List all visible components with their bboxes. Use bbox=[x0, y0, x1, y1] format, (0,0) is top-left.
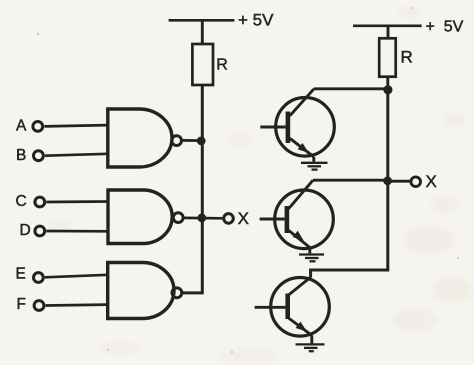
+5V rail (left) bbox=[169, 19, 235, 22]
transistor Q3 base bar bbox=[285, 294, 290, 320]
wire: Q3 base lead bbox=[255, 306, 286, 309]
ground (Q3) bbox=[296, 344, 325, 351]
terminal C bbox=[35, 197, 45, 207]
resistor R (right pull-up) bbox=[379, 38, 396, 76]
wire: Q1 emitter to ground bbox=[312, 157, 315, 162]
svg-text:X: X bbox=[238, 209, 249, 228]
junction: U2 output on bus bbox=[197, 214, 206, 223]
wire: D to U2 bbox=[46, 230, 108, 233]
transistor Q2 base bar bbox=[285, 206, 290, 233]
wire: rail to resistor R2 bbox=[387, 26, 390, 39]
wire: right vertical bus down to Q3 collector bbox=[311, 90, 388, 278]
junction: U1 output on bus bbox=[197, 137, 206, 146]
wire: Q1 collector to bus bbox=[314, 87, 388, 90]
terminal X (left output) bbox=[224, 214, 234, 224]
terminal B bbox=[34, 151, 44, 161]
wire: rail to resistor R1 bbox=[201, 20, 204, 44]
wire: Q2 base lead bbox=[260, 218, 285, 221]
transistor Q3 emitter lead bbox=[289, 318, 312, 335]
svg-text:R: R bbox=[401, 47, 413, 66]
wire: resistor R2 down to junction bbox=[386, 77, 389, 90]
transistor Q2 circle bbox=[275, 190, 334, 249]
wire: B to U1 bbox=[45, 154, 108, 156]
NAND gate U1 bubble bbox=[172, 136, 182, 146]
transistor Q3 collector lead bbox=[289, 277, 311, 295]
svg-text:A: A bbox=[16, 117, 27, 134]
transistor Q2 emitter lead bbox=[289, 230, 310, 247]
transistor Q3 emitter arrow bbox=[296, 322, 307, 332]
svg-text:+ 5V: + 5V bbox=[238, 11, 274, 30]
wire: U1 bubble to bus bbox=[182, 139, 201, 142]
svg-text:D: D bbox=[20, 222, 31, 239]
wire: Q2 emitter to ground bbox=[308, 247, 311, 253]
terminal D bbox=[35, 226, 45, 236]
svg-text:C: C bbox=[16, 193, 27, 210]
wire: C to U2 bbox=[46, 200, 108, 203]
resistor R (left pull-up) bbox=[192, 44, 213, 85]
+5V rail (right) bbox=[353, 24, 422, 27]
svg-text:X: X bbox=[426, 172, 437, 191]
junction: Q1 collector on bus bbox=[383, 85, 392, 94]
svg-text:R: R bbox=[216, 57, 228, 74]
wire: A to U1 bbox=[44, 125, 108, 126]
wire: left vertical bus from resistor down to gate U3 output corner bbox=[182, 85, 203, 293]
wire: bus to terminal X (right) bbox=[391, 180, 410, 183]
svg-text:+ 5V: + 5V bbox=[426, 18, 464, 35]
wire: F to U3 bbox=[46, 303, 108, 307]
NAND gate U2 bubble bbox=[173, 213, 183, 223]
wire: Q1 base lead bbox=[260, 126, 285, 129]
junction: Q2 collector / X output on bus bbox=[383, 176, 392, 185]
svg-text:E: E bbox=[16, 265, 26, 282]
svg-text:B: B bbox=[16, 147, 26, 164]
svg-text:F: F bbox=[17, 296, 26, 313]
ground (Q1) bbox=[301, 163, 328, 170]
transistor Q1 base bar bbox=[286, 112, 291, 144]
terminal E bbox=[34, 273, 44, 283]
NAND gate U3 body bbox=[108, 263, 174, 319]
transistor Q3 circle bbox=[271, 278, 330, 337]
wire: U2 bubble through bus to terminal X bbox=[184, 217, 223, 220]
transistor Q1 collector lead bbox=[290, 89, 314, 116]
transistor Q2 collector lead bbox=[289, 180, 314, 209]
terminal A bbox=[33, 122, 43, 132]
NAND gate U1 body bbox=[108, 109, 172, 167]
NAND gate U2 body bbox=[108, 190, 172, 244]
wire: E to U3 bbox=[45, 275, 108, 278]
wire: Q3 emitter to ground bbox=[310, 335, 313, 343]
terminal X (right output) bbox=[411, 177, 421, 187]
transistor Q1 circle bbox=[276, 98, 335, 157]
wire: Q2 collector to bus bbox=[313, 179, 388, 182]
transistor Q1 emitter arrow bbox=[298, 143, 309, 153]
transistor Q1 emitter lead bbox=[290, 138, 314, 157]
transistor Q2 emitter arrow bbox=[293, 231, 304, 241]
ground (Q2) bbox=[299, 255, 324, 262]
terminal F bbox=[34, 301, 44, 311]
NAND gate U3 bubble bbox=[172, 288, 182, 298]
